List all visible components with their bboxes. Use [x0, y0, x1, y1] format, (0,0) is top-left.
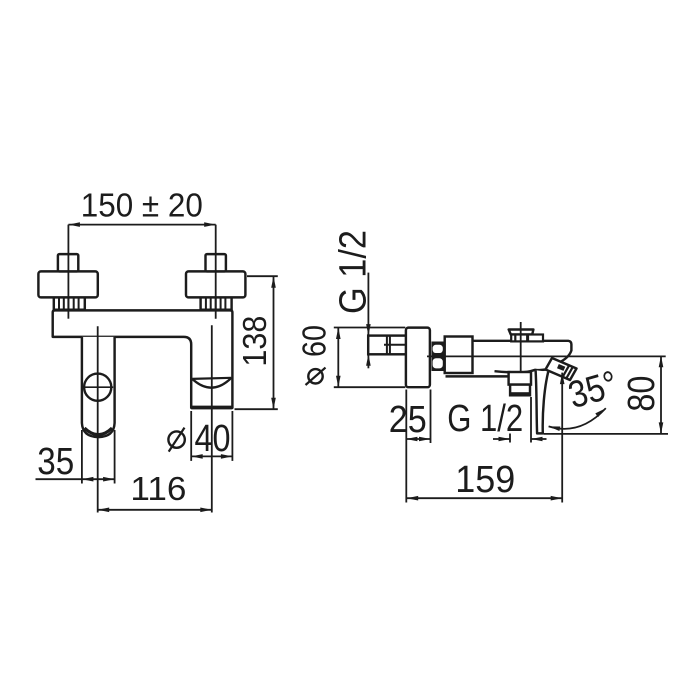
dimension o40 (right pipe diameter) [168, 411, 232, 461]
svg-text:80: 80 [621, 376, 663, 412]
center line of left pipe [97, 326, 99, 512]
svg-text:159: 159 [455, 459, 515, 501]
35 degree reference vertical line [560, 373, 565, 503]
dimension 138 (height) [235, 276, 278, 409]
side view: hex connection nut [432, 342, 444, 372]
side view: cartridge cap on top of body [509, 330, 543, 342]
label G 1/2 with arrows (wall thread, side view top) [333, 230, 375, 368]
dimension o60 (escutcheon diameter) [296, 325, 406, 387]
svg-text:150 ± 20: 150 ± 20 [81, 187, 203, 224]
center line of right mount [215, 225, 217, 319]
svg-text:G 1/2: G 1/2 [333, 230, 375, 314]
side view: main mixer body with curved underside [446, 341, 572, 377]
front view: mixer body bar with right outlet pipe (o40 spout column) [53, 310, 233, 408]
front view: left wall-mount assembly (escutcheon + nut + threaded shank) [38, 254, 97, 310]
svg-text:60: 60 [296, 325, 333, 357]
side view: wall pipe stub with G1/2 thread [368, 336, 408, 355]
front view: right wall-mount assembly (escutcheon + nut + threaded shank) [186, 254, 245, 310]
side view: internal body axis line (also 80-dim top reference) [427, 355, 666, 357]
side view: curved spout blade (fin) [536, 370, 549, 433]
dimension 80 (spout height) [621, 356, 663, 434]
center line of left mount [67, 225, 69, 319]
dimension 25 (escutcheon depth) [389, 390, 431, 503]
front view: left outlet pipe (35 wide column) with rounded bottom [82, 337, 115, 437]
front view: screw circle on left pipe [82, 374, 113, 401]
dimension 35 (left pipe width) [36, 430, 115, 484]
svg-text:138: 138 [236, 316, 273, 367]
dimension 116 (pipe spacing) [98, 470, 212, 512]
center line of right pipe [211, 325, 213, 512]
side view: G1/2 bath outlet nipple below body [509, 372, 531, 396]
svg-text:116: 116 [130, 470, 186, 507]
side view: check-valve housing block [445, 337, 473, 374]
35 degree arc with arrows [549, 408, 606, 431]
dimension 159 (overall depth) [407, 459, 563, 501]
dimension 150 plus/minus 20 (mount spacing) [68, 187, 215, 227]
svg-text:40: 40 [195, 418, 231, 460]
svg-text:35: 35 [37, 441, 74, 483]
svg-text:G 1/2: G 1/2 [447, 398, 523, 440]
side view: angled hand-shower holder nozzle (35 deg) [546, 358, 577, 380]
side view: o60 escutcheon flange [406, 328, 430, 388]
svg-text:25: 25 [389, 399, 427, 441]
label G 1/2 (bath outlet thread) with outside arrows [447, 397, 546, 443]
center line through cartridge and outlet [520, 322, 522, 392]
bottom reference line for 80 dimension (spout tip level) [544, 433, 669, 435]
